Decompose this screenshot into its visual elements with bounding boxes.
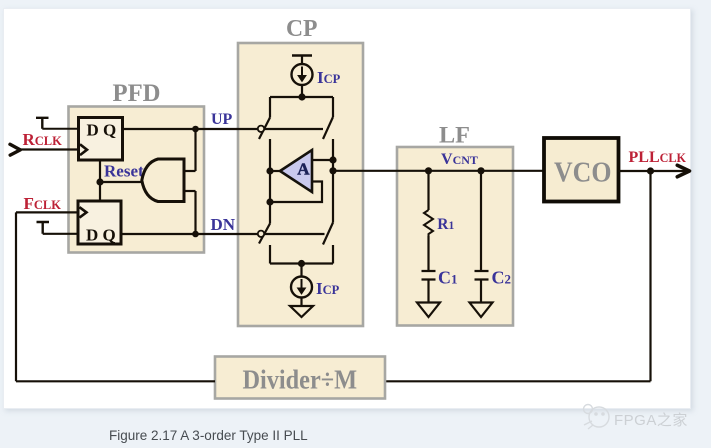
svg-text:VCNT: VCNT — [441, 151, 478, 168]
wire: feedback bottom right to divider — [385, 380, 651, 382]
wire: op-amp bottom input wrap to left rail — [270, 182, 322, 203]
RCLK label — [23, 130, 63, 149]
svg-text:VCO: VCO — [554, 158, 612, 189]
PFD block box — [69, 107, 205, 253]
svg-text:D Q: D Q — [86, 226, 116, 245]
RCLK input arrow — [10, 144, 20, 155]
divider label — [243, 364, 358, 395]
node: op-amp output dot — [266, 167, 273, 174]
wire: feedback to clock of U2 — [16, 211, 78, 213]
svg-text:A: A — [297, 160, 310, 179]
PFD block title — [113, 78, 161, 107]
wire: VCO output — [619, 170, 687, 172]
supply bar — [292, 54, 312, 57]
wire: current source I2 to ground — [300, 298, 302, 307]
wire: AND gate top input stub — [184, 170, 196, 172]
logic-1 tie symbol for U1 D input — [36, 118, 49, 129]
divider block box — [215, 357, 385, 399]
svg-text:DN: DN — [211, 215, 236, 234]
node: CP output dot on right rail — [329, 167, 336, 174]
wire: tie to D of flip-flop U1 — [42, 128, 78, 130]
wire: C2 to ground — [480, 280, 482, 303]
AND gate G1 (reset gate, pointing left) — [142, 159, 184, 202]
wire: down to resistor R1 — [427, 171, 429, 210]
wire: op-amp top input to right rail — [312, 159, 333, 161]
wire: down to capacitor C2 — [480, 171, 482, 271]
capacitor C2 — [475, 271, 489, 280]
wire: DN to AND gate input — [194, 191, 196, 234]
wire: op-amp output to left rail — [269, 170, 281, 172]
current source I1 (top ICP) — [292, 64, 313, 85]
flip-flop U2 (bottom DFF) — [78, 201, 121, 244]
svg-text:Reset: Reset — [104, 162, 144, 181]
current source I2 (bottom ICP) — [291, 277, 312, 298]
svg-text:UP: UP — [211, 111, 233, 128]
wire: tie to D of flip-flop U2 — [43, 233, 78, 235]
ground symbol C1 — [417, 303, 440, 318]
node: C2 branch dot — [477, 167, 484, 174]
wire: R1 to C1 — [427, 236, 429, 271]
LF block title — [439, 123, 470, 149]
svg-text:FCLK: FCLK — [24, 194, 62, 213]
C2 label — [492, 268, 512, 288]
node: UP junction dot — [192, 126, 199, 133]
svg-text:D Q: D Q — [87, 121, 117, 140]
node: bottom input dot on left rail — [266, 198, 273, 205]
wire: C1 to ground — [427, 280, 429, 303]
wire: feedback down right side — [649, 171, 651, 381]
logic-1 tie symbol for U2 D input — [37, 222, 50, 234]
svg-text:Divider÷M: Divider÷M — [243, 364, 358, 395]
wire: U1 Q output to UP line — [123, 128, 239, 130]
wire: feedback up left side — [15, 212, 17, 381]
wire: UP to AND gate input — [194, 129, 196, 171]
op-amp U3 — [280, 150, 312, 192]
C1 label — [438, 268, 458, 288]
svg-text:PLLCLK: PLLCLK — [629, 149, 687, 166]
wire: reset line between flip-flops — [99, 160, 101, 201]
switch S1 contact circle — [258, 126, 264, 132]
wire: splitter horizontal — [270, 96, 333, 98]
PLLCLK output arrowhead — [677, 165, 689, 177]
CP block title — [286, 15, 318, 42]
ground symbol C2 — [470, 303, 493, 318]
svg-text:LF: LF — [439, 123, 470, 149]
svg-text:PFD: PFD — [113, 78, 161, 107]
PLLCLK label — [629, 149, 687, 166]
node: top input dot on right rail — [329, 156, 336, 163]
CP block box — [238, 43, 363, 326]
wire: CP output to VCO input — [333, 170, 544, 172]
ICP top label — [317, 68, 341, 87]
node: PLLCLK junction dot — [647, 167, 654, 174]
flip-flop U2 D Q label — [86, 226, 116, 245]
VCNT label — [441, 151, 478, 168]
flip-flop U1 D Q label — [87, 121, 117, 140]
UP label — [211, 111, 233, 128]
wire: left lower stub — [269, 245, 271, 264]
svg-text:CP: CP — [286, 15, 318, 42]
node: reset junction dot — [96, 178, 103, 185]
node: merge junction dot — [298, 260, 305, 267]
wire: merge to current source I2 — [300, 264, 302, 277]
wire: DN control line through CP — [237, 233, 325, 235]
ICP bottom label — [316, 279, 340, 298]
flip-flop U2 clock triangle — [80, 207, 87, 217]
wire: supply to current source I1 — [301, 56, 303, 65]
resistor R1 — [424, 210, 433, 236]
wire: right lower stub — [332, 245, 334, 264]
DN label — [211, 215, 236, 234]
VCO block — [544, 138, 619, 202]
wire: AND gate bottom input stub — [184, 190, 196, 192]
wire: bottom merge — [270, 262, 333, 264]
R1 label — [437, 216, 454, 233]
wire: divider output to left — [16, 380, 215, 382]
switch S3 contact circle — [258, 231, 264, 237]
wire: RCLK to clock of U1 — [20, 148, 79, 150]
ground symbol CP — [290, 306, 313, 317]
node: R1 branch dot — [425, 167, 432, 174]
VCO label — [554, 158, 612, 189]
wire: right rail — [332, 139, 334, 223]
node: splitter junction dot — [298, 93, 305, 100]
wire: left branch down to switch S1 — [269, 97, 271, 118]
watermark logo — [580, 401, 614, 431]
node: DN junction dot — [192, 231, 199, 238]
flip-flop U1 clock triangle — [80, 144, 87, 155]
capacitor C1 — [422, 271, 436, 280]
wire: current source I1 to splitter — [301, 85, 303, 97]
op-amp U3 gain label A — [297, 160, 310, 179]
Reset label — [104, 162, 144, 181]
switch S1 blade (UP, left) — [259, 118, 270, 140]
svg-text:RCLK: RCLK — [23, 130, 63, 149]
FCLK label — [24, 194, 62, 213]
switch S4 blade (DN, right) — [323, 223, 333, 245]
flip-flop U1 (top DFF) — [79, 118, 123, 161]
wire: U2 Q output to DN line — [121, 233, 258, 235]
switch S2 blade (UP, right) — [323, 117, 333, 139]
wire: UP control line through CP — [237, 128, 324, 130]
LF block box — [397, 147, 513, 326]
wire: left rail — [269, 139, 271, 224]
wire: reset to AND gate output — [100, 181, 143, 183]
switch S3 blade (DN, left) — [259, 224, 270, 244]
wire: right branch down to switch S2 — [332, 97, 334, 117]
